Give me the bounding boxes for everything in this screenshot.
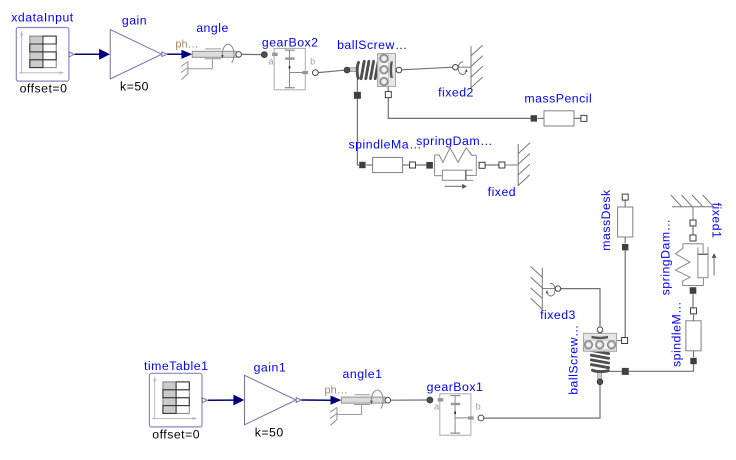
svg-text:springDam…: springDam… bbox=[416, 134, 493, 148]
svg-text:k=50: k=50 bbox=[120, 80, 149, 94]
svg-text:springDam…: springDam… bbox=[659, 219, 673, 296]
svg-text:fixed3: fixed3 bbox=[540, 308, 576, 322]
svg-text:gearBox2: gearBox2 bbox=[262, 36, 319, 50]
svg-text:timeTable1: timeTable1 bbox=[144, 359, 208, 373]
svg-text:offset=0: offset=0 bbox=[20, 82, 68, 96]
svg-text:massDesk: massDesk bbox=[599, 189, 613, 251]
svg-text:gain1: gain1 bbox=[254, 360, 287, 374]
svg-text:fixed2: fixed2 bbox=[438, 86, 474, 100]
svg-text:massPencil: massPencil bbox=[524, 92, 592, 106]
svg-text:fixed: fixed bbox=[488, 185, 516, 199]
svg-text:angle1: angle1 bbox=[343, 367, 383, 381]
svg-text:xdataInput: xdataInput bbox=[11, 11, 74, 25]
svg-text:gearBox1: gearBox1 bbox=[427, 380, 484, 394]
svg-text:angle: angle bbox=[196, 21, 229, 35]
svg-text:spindleM…: spindleM… bbox=[670, 301, 684, 367]
svg-text:k=50: k=50 bbox=[255, 426, 284, 440]
svg-text:gain: gain bbox=[122, 14, 147, 28]
svg-text:offset=0: offset=0 bbox=[152, 427, 200, 441]
svg-text:ballScrew…: ballScrew… bbox=[567, 324, 581, 395]
svg-text:spindleMa…: spindleMa… bbox=[349, 138, 422, 152]
svg-text:ballScrew…: ballScrew… bbox=[337, 38, 408, 52]
svg-text:fixed1: fixed1 bbox=[710, 203, 724, 239]
